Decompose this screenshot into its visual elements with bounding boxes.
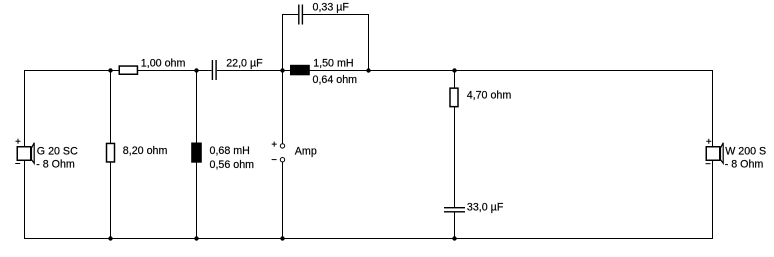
wire: amp branch lower segment [282,162,283,238]
wire: right vertical (woofer W 200 S branch) [712,70,713,239]
wire: bottom return rail [24,238,713,239]
node: bottom rail junction at 33,0 uF branch [452,236,456,240]
wire: vertical branch lower segment below 33,0 uF [454,213,455,238]
wire: bypass branch top horizontal right of 0,33 uF [303,14,368,15]
svg-text:4,70 ohm: 4,70 ohm [467,90,512,102]
capacitor 22,0 uF (series, vertical plates) [212,60,217,80]
node: bottom rail junction at 0,68 mH branch [194,236,198,240]
speaker G 20 SC (tweeter symbol) [15,139,34,164]
svg-text:8,20 ohm: 8,20 ohm [123,145,168,157]
wire: bypass branch right vertical [368,14,369,71]
inductor 0,68 mH (shunt, solid bar) [191,143,202,163]
wire: vertical branch of resistor 8,20 ohm [110,71,111,238]
wire: vertical branch upper segment (4,70 ohm / 33,0 uF) [454,71,455,208]
svg-text:G 20 SC: G 20 SC [37,146,78,158]
wire: bypass branch left vertical [282,14,283,70]
node: top rail junction at 0,68 mH branch [194,68,198,72]
node: bottom rail junction at 8,20 ohm branch [108,236,112,240]
svg-text:Amp: Amp [295,146,317,158]
svg-text:0,68 mH: 0,68 mH [210,145,250,157]
svg-text:0,64 ohm: 0,64 ohm [313,74,358,86]
node: bottom rail junction at amp branch [280,236,284,240]
capacitor 0,33 uF (bypass, vertical plates) [298,5,303,25]
wire: top rail right segment (22uF cap to woofer branch) [217,70,713,71]
wire: vertical branch of inductor 0,68 mH [196,71,197,238]
resistor 4,70 ohm (series with 33,0 uF, vertical) [450,88,458,107]
inductor 1,50 mH (series, solid bar) [290,65,310,76]
svg-text:0,56 ohm: 0,56 ohm [210,159,255,171]
svg-text:1,50 mH: 1,50 mH [313,58,353,70]
resistor 1,00 ohm (series, horizontal) [119,66,137,74]
node: top rail junction at bypass right [366,68,370,72]
svg-text:1,00 ohm: 1,00 ohm [141,58,186,70]
wire: bypass branch top horizontal left of 0,33 uF [282,14,298,15]
svg-text:W 200 S: W 200 S [725,146,766,158]
node: top rail junction at 8,20 ohm branch [108,68,112,72]
node: top rail junction at 4,70 ohm branch [452,68,456,72]
wire: top rail left segment (input node to 22uF cap) [24,70,212,71]
resistor 8,20 ohm (shunt, vertical) [107,143,115,162]
wire: left vertical (tweeter G 20 SC branch) [24,70,25,239]
capacitor 33,0 uF (shunt, horizontal plates) [444,207,465,213]
svg-text:22,0 µF: 22,0 µF [226,58,263,70]
svg-text:33,0 µF: 33,0 µF [467,201,504,213]
speaker W 200 S (woofer symbol) [706,139,724,164]
svg-text:- 8 Ohm: - 8 Ohm [36,158,75,170]
amp positive terminal (+ with open circle) [272,142,285,148]
wire: amp branch upper segment [282,71,283,144]
svg-text:0,33 µF: 0,33 µF [313,2,350,14]
amp negative terminal (- with open circle) [272,158,285,162]
node: top rail junction at amp / bypass left [280,68,284,72]
svg-text:- 8 Ohm: - 8 Ohm [725,158,764,170]
